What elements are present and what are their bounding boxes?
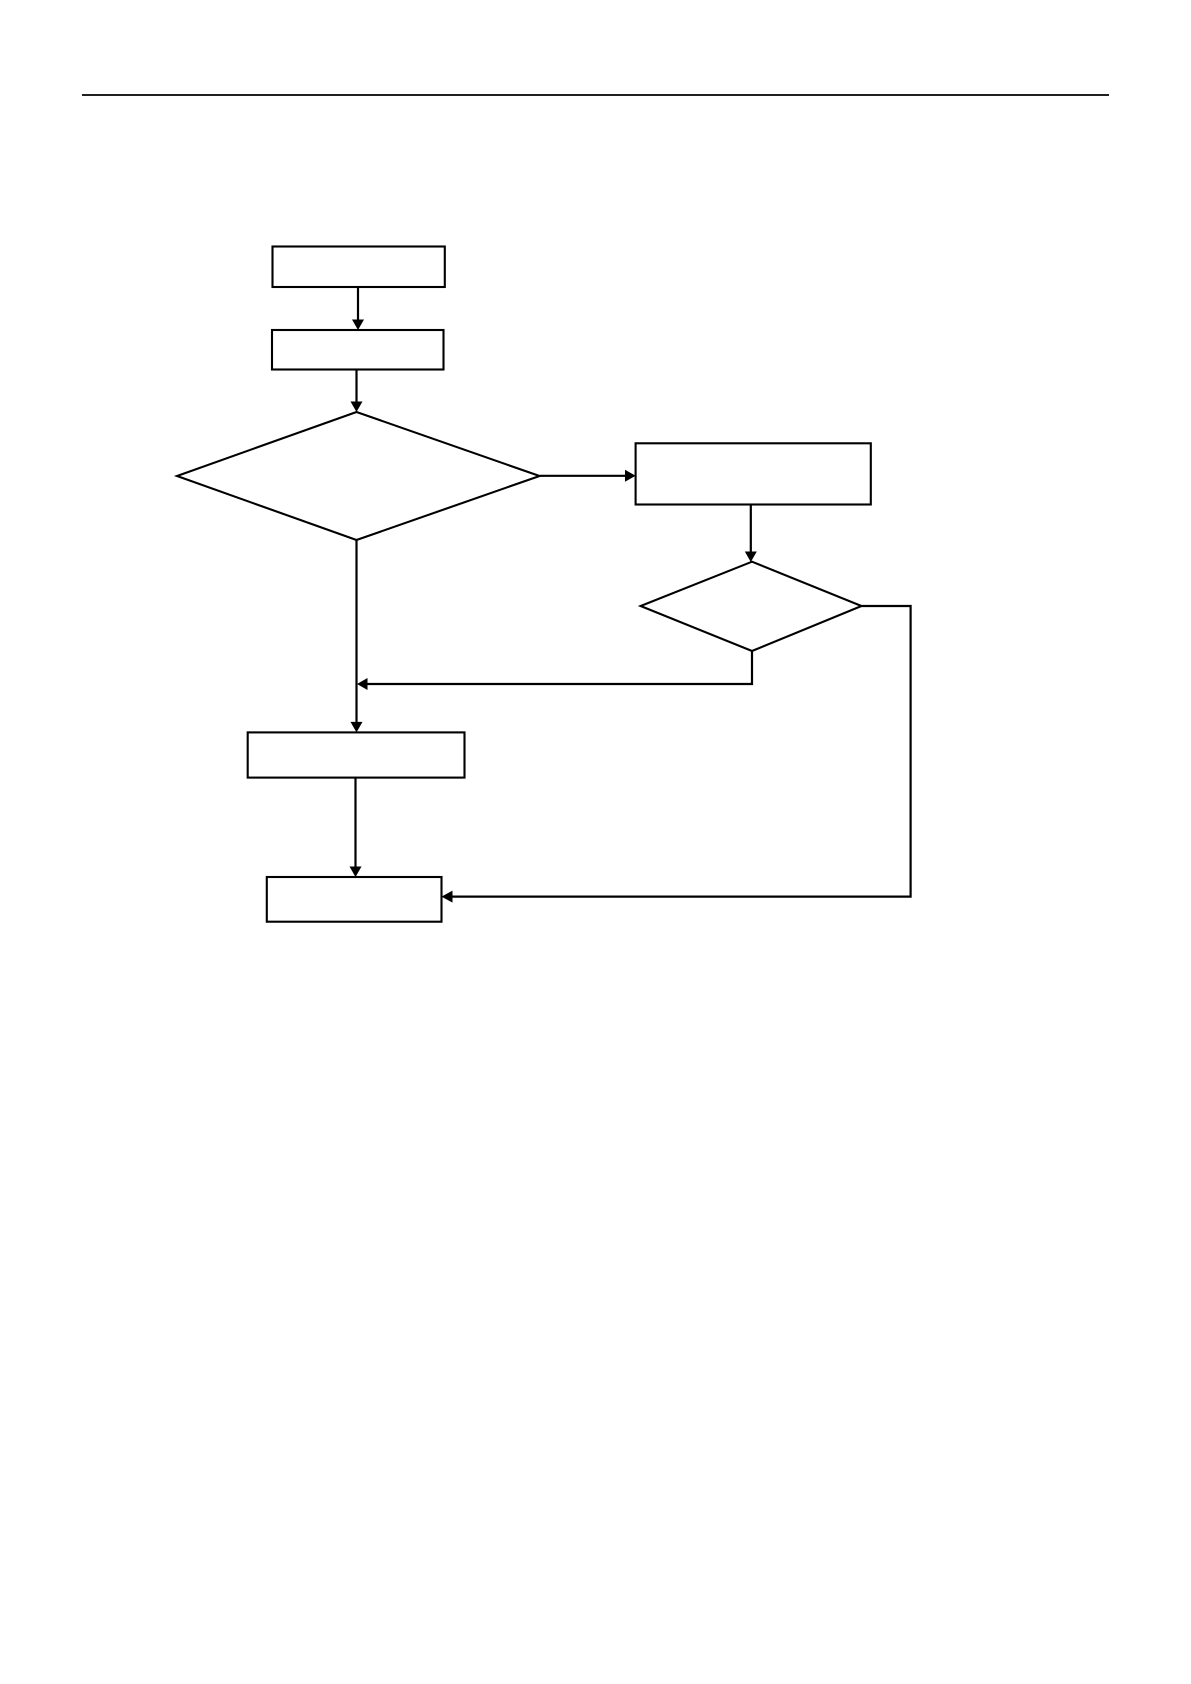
arrow box3 to diamond2 — [745, 505, 757, 563]
header rule — [82, 94, 1109, 96]
arrow box2 to diamond1 — [351, 370, 363, 413]
arrow box4 to box5 — [350, 778, 362, 877]
arrow diamond1 to box3 — [540, 470, 636, 482]
process box 5 — [267, 877, 442, 922]
process box 2 — [272, 330, 444, 370]
process box 3 — [636, 443, 871, 504]
connector diamond2 right to box5 (long return path with left arrow) — [442, 606, 911, 903]
decision diamond 1 — [177, 412, 540, 540]
arrow box1 to box2 — [352, 287, 364, 330]
arrow diamond1 bottom to box4 — [351, 540, 363, 732]
connector diamond2 bottom to junction (elbow with left arrow) — [357, 651, 752, 690]
process box 4 — [248, 732, 465, 777]
decision diamond 2 — [641, 562, 862, 651]
process box 1 — [273, 247, 445, 288]
